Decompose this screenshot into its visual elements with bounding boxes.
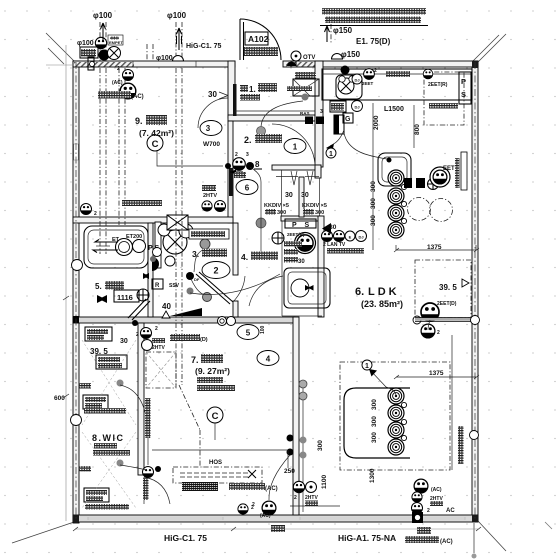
svg-text:P: P — [461, 77, 466, 86]
svg-text:G: G — [345, 116, 351, 123]
svg-text:1.: 1. — [249, 85, 256, 94]
svg-text:ET200: ET200 — [126, 234, 142, 240]
svg-text:2HTV: 2HTV — [152, 345, 165, 351]
svg-text:5.: 5. — [95, 282, 102, 291]
svg-text:HOS: HOS — [209, 460, 222, 466]
svg-text:1116: 1116 — [117, 293, 133, 302]
svg-text:HiG-C1. 75: HiG-C1. 75 — [164, 533, 207, 543]
svg-text:300: 300 — [371, 416, 378, 427]
svg-text:1100: 1100 — [321, 475, 328, 489]
svg-text:-30: -30 — [327, 224, 337, 231]
svg-text:E1. 75(D): E1. 75(D) — [356, 37, 391, 46]
svg-text:(AC): (AC) — [265, 486, 278, 492]
svg-text:(23. 85m²): (23. 85m²) — [361, 299, 403, 309]
svg-text:300: 300 — [315, 210, 324, 216]
svg-text:300: 300 — [371, 399, 378, 410]
svg-text:(AC): (AC) — [431, 487, 442, 493]
svg-text:2: 2 — [136, 332, 139, 338]
svg-text:RAS: RAS — [300, 111, 310, 116]
svg-text:3.: 3. — [192, 249, 199, 259]
svg-text:(9. 27m²): (9. 27m²) — [195, 366, 230, 376]
svg-text:(AC): (AC) — [260, 513, 271, 519]
svg-text:1: 1 — [365, 363, 369, 370]
svg-text:40: 40 — [162, 302, 171, 311]
svg-text:2: 2 — [235, 152, 238, 158]
svg-text:(AC): (AC) — [440, 539, 453, 545]
svg-text:EMPET: EMPET — [109, 40, 123, 45]
svg-text:φ150: φ150 — [341, 50, 361, 59]
svg-text:1375: 1375 — [427, 244, 442, 251]
svg-text:S: S — [461, 90, 466, 99]
svg-text:(AC): (AC) — [112, 80, 123, 86]
svg-text:800: 800 — [414, 124, 421, 135]
svg-text:C: C — [212, 411, 219, 422]
svg-text:8: 8 — [255, 160, 260, 169]
svg-text:100: 100 — [260, 325, 266, 334]
svg-text:1: 1 — [329, 151, 333, 158]
svg-text:DJ: DJ — [354, 105, 359, 110]
svg-text:C: C — [152, 139, 159, 150]
svg-text:30: 30 — [285, 192, 293, 199]
svg-text:4.: 4. — [241, 252, 248, 262]
svg-text:AC: AC — [446, 508, 455, 514]
svg-text:HiG-A1. 75-NA: HiG-A1. 75-NA — [338, 533, 396, 543]
svg-text:250: 250 — [284, 468, 295, 475]
svg-text:300: 300 — [277, 210, 286, 216]
svg-text:2HTV: 2HTV — [203, 193, 217, 199]
svg-text:30: 30 — [298, 259, 305, 265]
svg-text:6.: 6. — [355, 286, 364, 298]
svg-text:(7. 42m²): (7. 42m²) — [139, 128, 174, 138]
svg-text:L1500: L1500 — [384, 106, 404, 113]
svg-text:W700: W700 — [203, 141, 220, 148]
svg-text:2EET(R): 2EET(R) — [287, 232, 305, 237]
svg-text:(D): (D) — [200, 337, 208, 343]
svg-text:φ100: φ100 — [167, 11, 187, 20]
svg-text:2: 2 — [155, 326, 158, 332]
svg-text:300: 300 — [371, 432, 378, 443]
svg-text:2: 2 — [213, 266, 218, 276]
svg-text:φ100: φ100 — [93, 11, 113, 20]
svg-text:DF: DF — [194, 277, 200, 282]
svg-text:φ150: φ150 — [333, 26, 353, 35]
svg-text:3: 3 — [206, 124, 211, 133]
svg-text:7.: 7. — [191, 355, 199, 365]
svg-text:1375: 1375 — [429, 370, 444, 377]
svg-text:8.WIC: 8.WIC — [92, 433, 125, 443]
svg-text:300: 300 — [317, 440, 324, 451]
svg-text:ET: ET — [112, 237, 120, 243]
svg-text:5: 5 — [246, 329, 251, 338]
svg-text:30: 30 — [120, 338, 128, 345]
svg-text:2: 2 — [437, 330, 440, 336]
svg-text:30: 30 — [208, 90, 217, 99]
svg-text:300: 300 — [370, 215, 377, 226]
svg-text:2HTV: 2HTV — [305, 495, 318, 501]
svg-text:2: 2 — [252, 502, 255, 508]
svg-text:600: 600 — [54, 395, 65, 402]
svg-text:P S: P S — [292, 222, 312, 229]
svg-text:SSV: SSV — [169, 283, 180, 289]
svg-text:1: 1 — [293, 143, 298, 152]
svg-text:2: 2 — [117, 66, 120, 72]
svg-text:DJ: DJ — [354, 78, 359, 83]
svg-text:2EET(D): 2EET(D) — [437, 301, 457, 307]
svg-text:2: 2 — [294, 495, 297, 501]
svg-text:2 LAN TV: 2 LAN TV — [323, 242, 346, 248]
svg-text:A102: A102 — [248, 34, 269, 44]
svg-text:KKDIV ×5: KKDIV ×5 — [264, 203, 289, 209]
svg-text:9.: 9. — [135, 116, 143, 126]
svg-text:3: 3 — [246, 152, 249, 158]
svg-text:φ100: φ100 — [77, 40, 94, 47]
svg-text:2: 2 — [374, 68, 377, 74]
svg-text:3: 3 — [320, 109, 323, 115]
svg-text:4: 4 — [266, 355, 271, 364]
svg-text:DJ: DJ — [358, 235, 363, 240]
svg-text:30: 30 — [301, 192, 309, 199]
svg-text:6: 6 — [245, 184, 250, 193]
svg-text:E: E — [349, 235, 352, 240]
svg-text:EET: EET — [443, 166, 455, 172]
svg-text:39. 5: 39. 5 — [90, 347, 108, 356]
svg-text:R: R — [155, 283, 160, 289]
svg-text:300: 300 — [370, 181, 377, 192]
svg-text:KKDIV ×5: KKDIV ×5 — [302, 203, 327, 209]
svg-text:LDK: LDK — [368, 286, 400, 298]
svg-text:39. 5: 39. 5 — [439, 283, 457, 292]
svg-text:OTV: OTV — [303, 55, 315, 61]
svg-text:2.: 2. — [244, 135, 252, 145]
svg-text:300: 300 — [370, 198, 377, 209]
svg-text:2: 2 — [94, 211, 97, 217]
svg-text:1300: 1300 — [369, 468, 376, 483]
svg-text:2: 2 — [427, 508, 430, 514]
svg-text:HiG-C1. 75: HiG-C1. 75 — [186, 43, 222, 50]
svg-text:2EET: 2EET — [362, 81, 374, 86]
svg-text:(AC): (AC) — [131, 94, 144, 100]
svg-text:2EET(R): 2EET(R) — [428, 82, 448, 88]
svg-text:φ100: φ100 — [156, 55, 173, 62]
svg-text:2000: 2000 — [373, 115, 380, 130]
